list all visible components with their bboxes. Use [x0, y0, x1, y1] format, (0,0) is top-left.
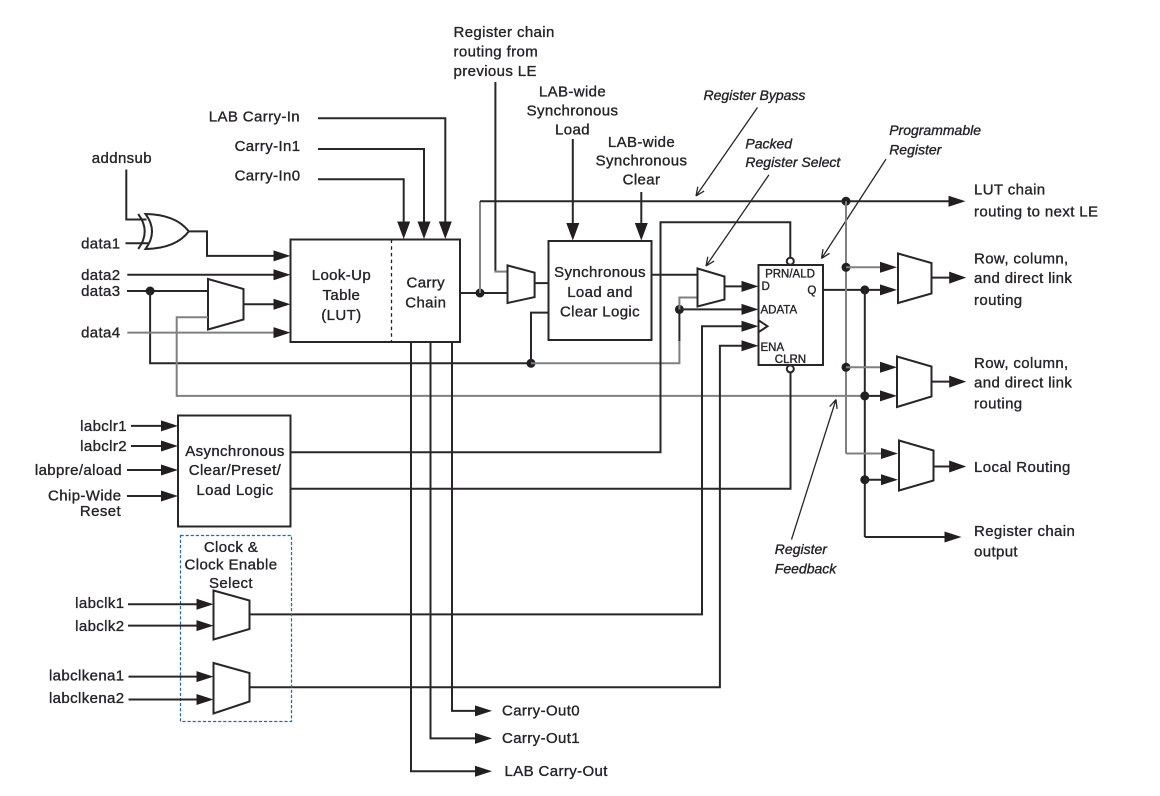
node sdata junction: [527, 359, 536, 368]
arrow LUT chain routing: [949, 196, 966, 207]
svg-text:Select: Select: [209, 575, 253, 592]
svg-text:Carry: Carry: [407, 275, 446, 292]
wire carry-out0: [452, 342, 477, 711]
svg-text:Carry-In0: Carry-In0: [235, 168, 301, 185]
svg-text:labclk2: labclk2: [75, 618, 124, 635]
mux output O3: [899, 441, 934, 491]
svg-text:Synchronous: Synchronous: [554, 264, 646, 281]
svg-text:Synchronous: Synchronous: [527, 103, 619, 120]
node bypass mux O1 junction: [842, 263, 851, 272]
box clock and clock enable select (dashed): [181, 536, 292, 722]
arrow carry-out0: [475, 705, 492, 716]
wire async clear path: [291, 373, 791, 489]
svg-text:Carry-Out1: Carry-Out1: [502, 730, 580, 747]
svg-text:Look-Up: Look-Up: [312, 267, 371, 284]
wire data2: [127, 274, 275, 276]
svg-text:data1: data1: [81, 235, 120, 252]
svg-text:labclk1: labclk1: [75, 595, 124, 612]
wire mux M2 out to sync box: [535, 282, 549, 284]
wire data3 down and across (async/sync data): [150, 291, 531, 363]
wire addnsub to XOR: [126, 170, 146, 220]
svg-text:Clear: Clear: [623, 172, 661, 189]
wire carry output: [460, 292, 507, 294]
svg-text:Register chain: Register chain: [454, 24, 555, 41]
mux output O2: [897, 357, 932, 408]
mux sync select M2: [508, 265, 535, 303]
wire bypass vertical (gray): [845, 201, 847, 453]
callout programmable register: [822, 159, 887, 258]
svg-text:LUT chain: LUT chain: [974, 182, 1046, 199]
arrow Q into mux O1: [880, 284, 897, 295]
arrow labclkena2: [197, 694, 214, 705]
svg-text:routing: routing: [974, 396, 1023, 413]
svg-text:Register Bypass: Register Bypass: [704, 87, 806, 103]
svg-text:routing: routing: [974, 292, 1023, 309]
mux clock select M4: [214, 591, 250, 640]
callout register feedback: [792, 400, 838, 540]
svg-text:Chain: Chain: [405, 295, 446, 312]
bubble CLRN bottom: [787, 365, 794, 372]
wire labclkena2: [129, 699, 199, 701]
wire ena path: [250, 346, 743, 688]
svg-text:LAB Carry-Out: LAB Carry-Out: [505, 763, 609, 780]
arrow labclr1: [161, 420, 178, 431]
svg-text:Programmable: Programmable: [889, 122, 981, 138]
wire sync box output: [652, 274, 698, 276]
arrow mux O2 bottom input: [880, 390, 897, 401]
mux data3/feedback M1: [208, 279, 244, 330]
svg-text:Register: Register: [775, 541, 828, 557]
wire LAB Carry-In: [318, 118, 445, 223]
arrow LAB carry-out: [475, 766, 492, 777]
wire data4 (gray): [127, 332, 275, 334]
wire mux M3 output to register D: [725, 285, 743, 287]
wire clock path: [250, 326, 743, 614]
arrow carry-out1: [475, 733, 492, 744]
xor gate G1: [138, 214, 189, 249]
svg-text:data2: data2: [81, 267, 120, 284]
svg-text:ENA: ENA: [761, 342, 785, 354]
wire labpre/aload: [127, 469, 163, 471]
svg-text:ADATA: ADATA: [761, 304, 798, 316]
arrow mux M1 output into LUT: [274, 299, 291, 310]
wire labclr2: [131, 445, 163, 447]
svg-text:Packed: Packed: [745, 136, 793, 152]
mux packed register select M3: [698, 269, 725, 307]
svg-text:Row, column,: Row, column,: [974, 355, 1069, 372]
svg-text:Load Logic: Load Logic: [196, 482, 273, 499]
node data3 junction: [146, 287, 155, 296]
wire labclk1: [128, 603, 198, 605]
wire labclr1: [131, 425, 163, 427]
arrow labclk1: [197, 599, 214, 610]
wire register bypass vertical: [479, 201, 481, 293]
svg-text:Clock &: Clock &: [204, 539, 258, 556]
wire into mux O3 bottom: [865, 479, 881, 481]
wire labclk2: [128, 625, 198, 627]
bubble PRN top: [787, 258, 794, 265]
wire labclkena1: [129, 676, 199, 678]
wire into mux O1 top (gray): [846, 266, 880, 268]
svg-text:(LUT): (LUT): [321, 307, 361, 324]
svg-text:CLRN: CLRN: [775, 354, 806, 366]
box programmable register: [759, 265, 824, 365]
arrow LAB Carry-In down: [439, 222, 452, 240]
svg-text:and direct link: and direct link: [974, 270, 1072, 287]
node bypass mux O2 junction: [842, 363, 851, 372]
wire carry-out1: [431, 342, 477, 738]
arrow local routing: [949, 461, 966, 473]
pin clock triangle: [759, 320, 768, 332]
wire XOR output to LUT: [189, 231, 275, 256]
wire sync load down: [572, 139, 574, 224]
wire mux M1 output to LUT: [244, 303, 276, 305]
wire mux O3 out: [934, 466, 952, 468]
svg-text:labclkena1: labclkena1: [49, 667, 125, 684]
wire Q output: [823, 289, 882, 291]
arrow labclk2: [197, 620, 214, 631]
arrow labclkena1: [197, 671, 214, 682]
svg-text:Load and: Load and: [567, 284, 633, 301]
arrow mux O2 top input: [880, 362, 897, 373]
arrow mux O1 top input: [880, 262, 897, 273]
svg-text:Clear Logic: Clear Logic: [560, 304, 640, 321]
wire Carry-In1: [318, 149, 424, 223]
svg-text:previous LE: previous LE: [454, 63, 537, 80]
svg-text:data3: data3: [81, 283, 120, 300]
node feedback junction: [860, 391, 869, 400]
arrow data2 into LUT: [274, 269, 291, 280]
wire mux O2 out: [932, 381, 952, 383]
wire sync clear down: [640, 192, 642, 224]
node adata junction: [675, 305, 684, 314]
wire adata into register: [679, 308, 742, 310]
wire data3 to mux: [127, 290, 208, 292]
svg-text:PRN/ALD: PRN/ALD: [765, 269, 815, 281]
arrow Carry-In0 down: [397, 222, 410, 240]
svg-text:routing to next LE: routing to next LE: [974, 203, 1098, 220]
arrow ADATA input: [742, 304, 759, 315]
svg-text:labclr1: labclr1: [80, 418, 127, 435]
arrow data4 into LUT: [274, 327, 291, 338]
callout packed register select: [706, 175, 769, 266]
box asynchronous clear preset load logic: [178, 416, 291, 527]
svg-text:LAB-wide: LAB-wide: [539, 84, 606, 101]
arrow data1 into LUT: [274, 250, 291, 261]
arrow chip-wide reset: [161, 491, 178, 502]
divider dashed LUT/carry: [391, 240, 393, 343]
arrow Carry-In1 down: [418, 222, 431, 240]
svg-text:Register: Register: [889, 141, 942, 157]
arrow register chain output: [945, 532, 962, 543]
svg-text:Load: Load: [555, 121, 590, 138]
arrow labclr2: [161, 441, 178, 452]
svg-text:Table: Table: [323, 287, 361, 304]
wire into mux O2 top (gray): [846, 366, 880, 368]
wire into mux O3 top (gray): [846, 453, 881, 455]
svg-text:Row, column,: Row, column,: [974, 250, 1069, 267]
svg-text:addnsub: addnsub: [92, 150, 152, 167]
arrow sync clear: [635, 223, 648, 241]
arrow row column routing 1: [949, 272, 966, 284]
wire register chain output: [865, 536, 946, 538]
wire Carry-In0: [318, 179, 404, 223]
wire chip-wide reset: [127, 495, 163, 497]
svg-text:labclkena2: labclkena2: [49, 690, 125, 707]
svg-text:Feedback: Feedback: [775, 560, 837, 576]
wire adata gray segment: [531, 340, 679, 363]
node LUT chain junction: [842, 197, 851, 206]
arrow clock input: [742, 321, 759, 332]
arrow ENA input: [742, 340, 759, 351]
wire packed mux lower input: [679, 298, 697, 310]
svg-text:D: D: [762, 281, 770, 293]
svg-text:labpre/aload: labpre/aload: [35, 462, 122, 479]
arrow row column routing 2: [949, 376, 966, 388]
arrow mux O3 top input: [881, 448, 898, 459]
svg-text:Synchronous: Synchronous: [596, 153, 688, 170]
wire LAB carry-out: [411, 342, 477, 771]
svg-text:LAB Carry-In: LAB Carry-In: [209, 109, 300, 126]
mux clock enable select M5: [214, 663, 250, 714]
arrow mux O3 bottom input: [881, 474, 898, 485]
wire Q vertical: [864, 290, 866, 537]
node local routing junction: [860, 475, 869, 484]
wire sdata branch into sync box: [531, 313, 549, 364]
svg-text:Register Select: Register Select: [745, 154, 841, 170]
svg-text:and direct link: and direct link: [974, 375, 1072, 392]
node Q junction: [860, 285, 869, 294]
svg-text:Register chain: Register chain: [974, 523, 1075, 540]
arrow D input: [742, 281, 759, 292]
wire register feedback (gray): [177, 317, 865, 396]
svg-text:routing from: routing from: [454, 44, 539, 61]
svg-text:Carry-In1: Carry-In1: [235, 138, 301, 155]
svg-text:Clear/Preset/: Clear/Preset/: [189, 462, 282, 479]
svg-text:Local Routing: Local Routing: [974, 459, 1071, 476]
node carry output junction: [476, 289, 485, 298]
svg-text:Asynchronous: Asynchronous: [185, 443, 285, 460]
svg-text:Carry-Out0: Carry-Out0: [502, 703, 580, 720]
svg-text:labclr2: labclr2: [80, 438, 127, 455]
wire register chain in: [494, 82, 496, 272]
wire mux O1 out: [932, 277, 952, 279]
wire register bypass / LUT chain line: [480, 200, 950, 202]
svg-text:Clock Enable: Clock Enable: [185, 556, 278, 573]
box synchronous load and clear logic: [549, 241, 652, 340]
svg-text:data4: data4: [81, 325, 120, 342]
wire async preset path: [291, 222, 791, 452]
wire data1 to XOR: [126, 242, 149, 244]
arrow sync load: [566, 223, 579, 241]
svg-text:Q: Q: [807, 285, 816, 297]
mux output O1: [898, 254, 932, 304]
svg-text:LAB-wide: LAB-wide: [608, 134, 675, 151]
box LUT and carry chain: [291, 240, 461, 343]
wire into mux O2 bottom: [865, 395, 880, 397]
callout register bypass: [696, 108, 758, 197]
svg-text:Reset: Reset: [80, 503, 122, 520]
arrow labpre/aload: [161, 465, 178, 476]
svg-text:output: output: [974, 543, 1018, 560]
